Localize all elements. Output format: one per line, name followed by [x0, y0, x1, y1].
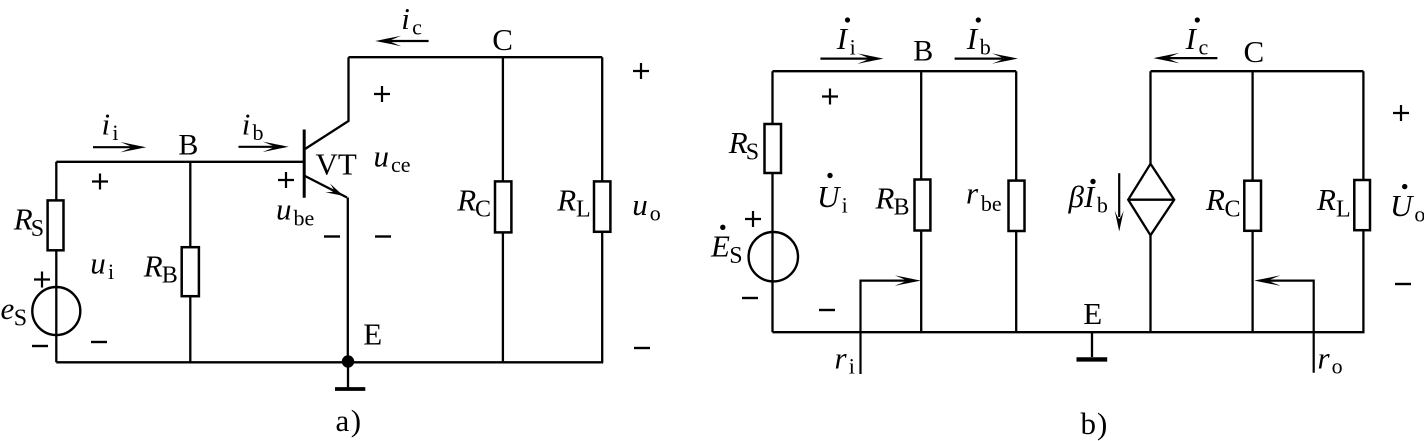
svg-text:Ic: Ic: [1185, 21, 1209, 60]
svg-text:E: E: [1083, 296, 1102, 331]
svg-text:Uo: Uo: [1390, 188, 1424, 227]
beta I_b down arrow: [1118, 173, 1120, 217]
svg-text:RC: RC: [1205, 182, 1240, 222]
wire: circuit a RB branch vertical: [189, 162, 191, 362]
source ES circle: [749, 232, 798, 281]
plus u_be: [278, 172, 294, 188]
wire: circuit a RC branch vertical: [502, 57, 504, 362]
wire: circuit b bottom wire: [773, 331, 1365, 333]
plus eS: [34, 272, 50, 288]
r_o measuring arrow: [1269, 281, 1314, 373]
wire: circuit a base wire B row: [56, 161, 303, 163]
plus U_o: [1393, 105, 1409, 121]
svg-text:RC: RC: [456, 182, 491, 222]
svg-text:RB: RB: [143, 248, 178, 288]
current arrow I_i (b): [820, 57, 869, 59]
svg-text:rbe: rbe: [966, 175, 1002, 216]
minus U_i: [819, 309, 835, 311]
minus u_o: [634, 347, 650, 349]
minus u_ce: [375, 235, 391, 237]
resistor RB (b): [915, 180, 931, 231]
transistor VT emitter lead: [347, 198, 349, 363]
ground (a): [347, 362, 349, 387]
current arrow I_c (b): [1168, 57, 1217, 59]
wire: circuit b top wire left: [773, 70, 1017, 72]
svg-text:B: B: [178, 129, 198, 162]
svg-text:C: C: [1244, 34, 1265, 69]
resistor RS (a): [48, 200, 64, 250]
wire: circuit a top wire: [349, 56, 603, 58]
svg-text:RS: RS: [728, 125, 759, 166]
minus u_be: [324, 235, 340, 237]
current arrow i_c: [390, 40, 429, 42]
svg-text:Ui: Ui: [817, 179, 848, 218]
wire: circuit b RB branch: [920, 71, 922, 332]
svg-text:uo: uo: [632, 187, 661, 226]
resistor RC (a): [495, 181, 511, 232]
svg-text:RS: RS: [13, 201, 44, 242]
svg-text:ii: ii: [102, 107, 119, 146]
svg-text:C: C: [492, 22, 513, 57]
current arrow i_b: [239, 146, 275, 148]
svg-text:B: B: [913, 35, 933, 68]
svg-text:ube: ube: [276, 192, 314, 231]
minus ES: [742, 297, 758, 299]
plus u_o: [633, 63, 649, 79]
svg-text:eS: eS: [1, 291, 28, 332]
resistor RB (a): [182, 247, 199, 296]
plus u_i: [92, 174, 108, 190]
svg-text:ui: ui: [90, 245, 114, 284]
svg-text:uce: uce: [374, 139, 411, 178]
svg-text:ES: ES: [710, 228, 743, 269]
transistor VT emitter diagonal with arrow: [305, 176, 347, 198]
svg-text:VT: VT: [316, 147, 357, 182]
resistor RL (a): [594, 181, 610, 231]
svg-text:RL: RL: [1316, 182, 1351, 222]
svg-text:Ib: Ib: [966, 21, 991, 60]
wire: circuit b left source branch: [771, 71, 773, 332]
svg-text:a): a): [336, 403, 363, 438]
wire: circuit a left vertical source branch: [55, 162, 57, 362]
wire: circuit b RL branch: [1362, 71, 1364, 332]
minus U_o: [1395, 283, 1411, 285]
svg-text:Ii: Ii: [836, 21, 856, 60]
svg-text:RB: RB: [875, 180, 910, 220]
source eS circle: [32, 287, 80, 335]
svg-text:E: E: [363, 317, 382, 352]
svg-text:ib: ib: [242, 107, 264, 146]
svg-text:βIb: βIb: [1068, 179, 1108, 218]
svg-text:ro: ro: [1318, 341, 1343, 379]
wire: circuit b r_be branch: [1015, 71, 1017, 332]
minus eS: [32, 345, 48, 347]
controlled source diamond: [1128, 164, 1174, 236]
wire: circuit b top wire right: [1151, 70, 1364, 72]
transistor VT base bar: [303, 130, 306, 198]
plus ES: [745, 211, 761, 227]
current arrow I_b (b): [955, 57, 1003, 59]
resistor RC (b): [1244, 181, 1261, 231]
minus u_i: [91, 341, 107, 343]
ground (b): [1091, 332, 1093, 357]
svg-text:ri: ri: [835, 341, 855, 379]
node E junction dot: [342, 355, 354, 367]
current arrow i_i: [93, 146, 132, 148]
resistor RS (b): [765, 124, 782, 173]
plus u_ce: [374, 86, 390, 102]
wire: circuit b controlled source branch: [1149, 71, 1151, 332]
wire: circuit a RL branch vertical: [601, 57, 603, 362]
svg-text:RL: RL: [556, 182, 590, 222]
wire: circuit b RC branch: [1251, 71, 1253, 332]
transistor VT collector lead: [305, 57, 349, 149]
resistor RL (b): [1354, 180, 1370, 230]
svg-text:ic: ic: [401, 1, 422, 40]
wire: circuit a bottom wire: [56, 361, 603, 363]
svg-text:b): b): [1081, 406, 1109, 441]
r_i measuring arrow: [861, 281, 907, 374]
resistor r_be: [1009, 181, 1025, 231]
plus U_i: [822, 89, 838, 105]
